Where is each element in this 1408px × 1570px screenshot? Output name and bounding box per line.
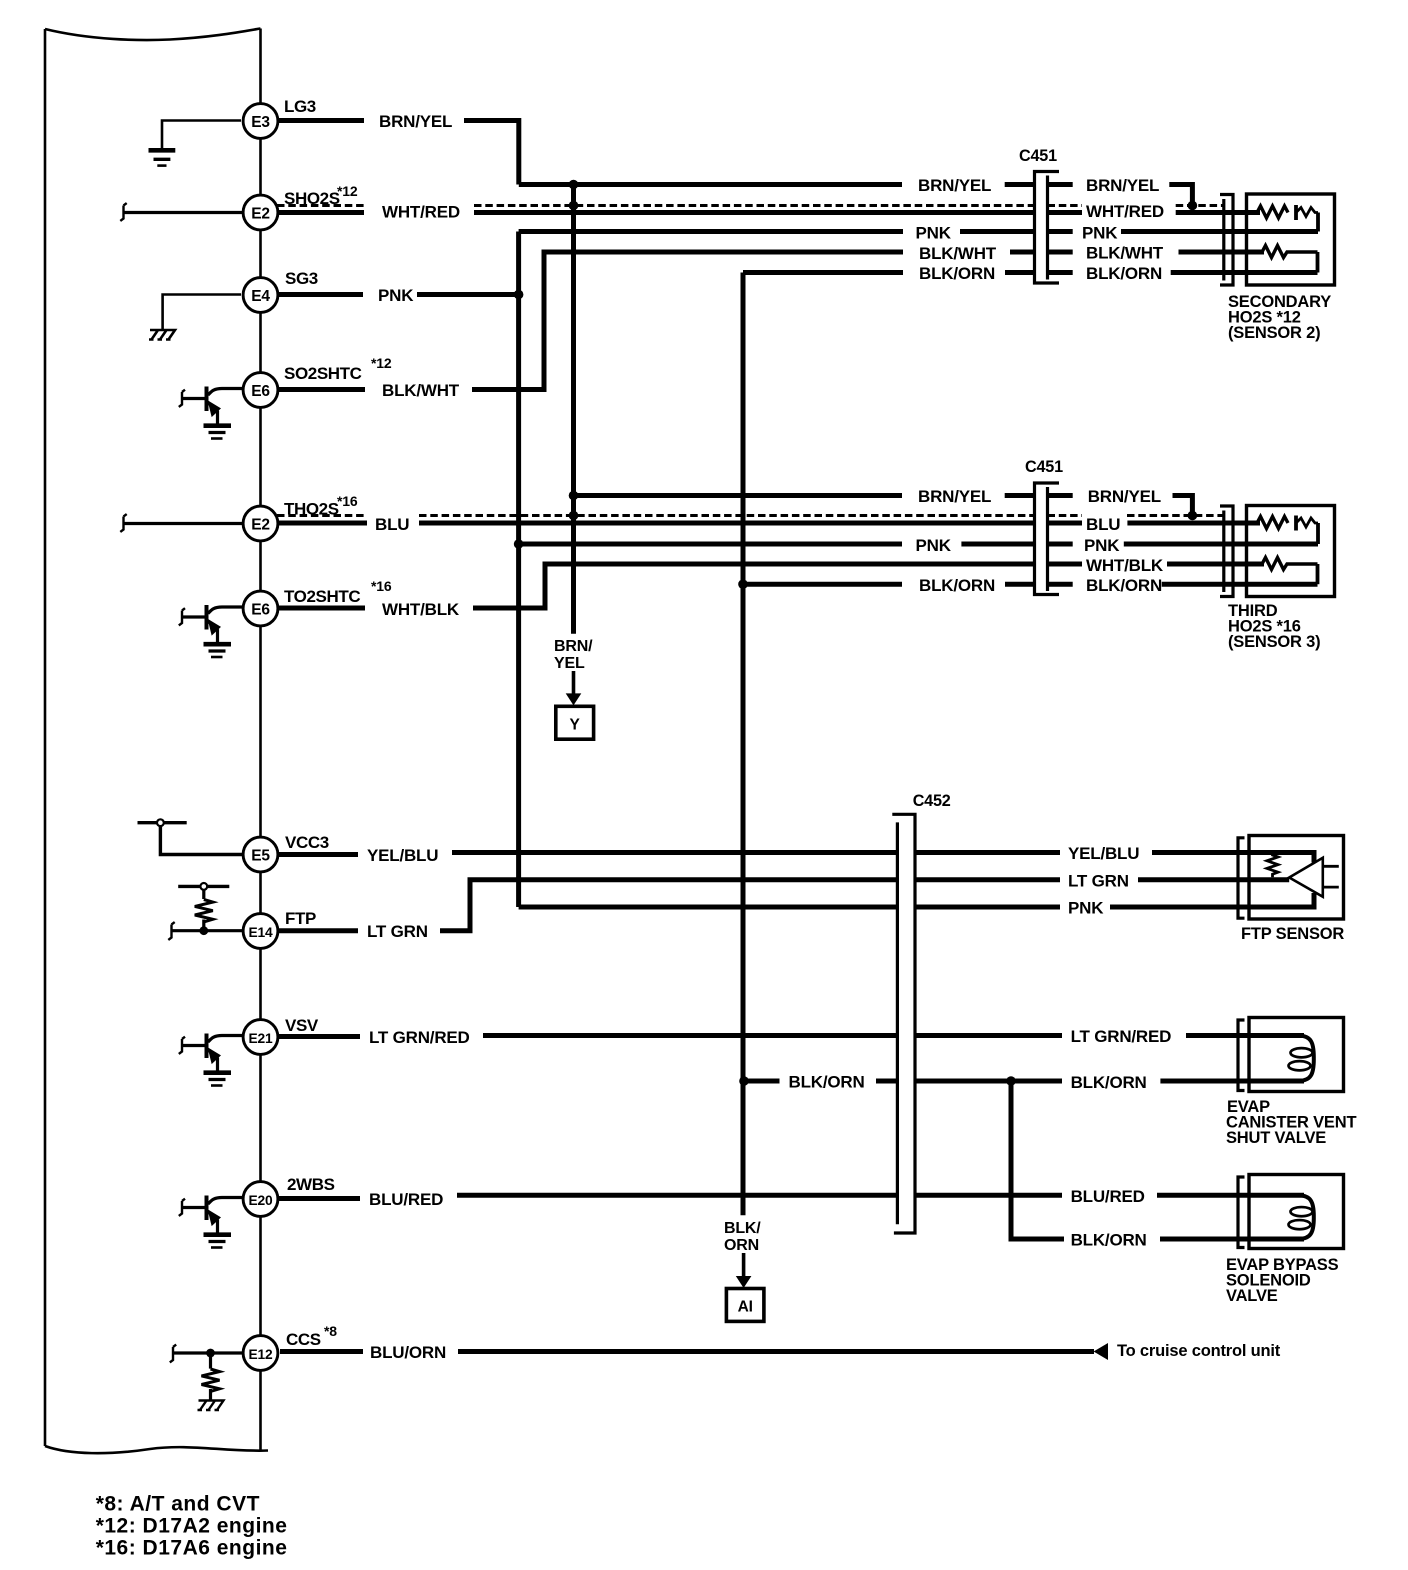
wire BRN/YEL2 into C451 <box>1005 493 1035 498</box>
wire BLU/RED from E20 <box>279 1196 360 1201</box>
pin E14 <box>243 914 278 949</box>
node AI (connector box) <box>726 1289 764 1322</box>
transistor at E21 with ground <box>208 1036 242 1043</box>
wire WHT/RED (label-C451) <box>474 210 1035 215</box>
svg-text:BLU: BLU <box>1086 515 1120 534</box>
svg-text:SO2SHTC: SO2SHTC <box>284 364 362 383</box>
wire WHT/RED stub (C451 right) <box>1048 210 1083 215</box>
svg-text:2WBS: 2WBS <box>287 1175 335 1194</box>
wire YEL/BLU to FTP <box>1152 850 1249 855</box>
svg-text:*16: *16 <box>337 493 358 509</box>
wire into E12 <box>173 1351 245 1354</box>
svg-text:LG3: LG3 <box>284 97 316 116</box>
svg-text:BLK/WHT: BLK/WHT <box>1086 244 1164 263</box>
wire BRN/YEL2 stub (right) <box>1048 493 1073 498</box>
sensor FTP potentiometer <box>1249 853 1314 863</box>
off-page hook (E2) <box>120 203 126 221</box>
pin E4 <box>243 278 278 313</box>
wire BRN/YEL row (to C451) <box>519 182 902 187</box>
wire YEL/BLU from E5 <box>278 852 358 857</box>
transistor at E20 with ground <box>208 1198 242 1205</box>
wire LT GRN to C452 <box>440 880 897 931</box>
wire PNK to bus <box>417 292 519 297</box>
ECM connector torn-page boundary <box>45 29 261 41</box>
wire PNK bus vertical <box>516 232 521 908</box>
wire BLU/ORN from E12 <box>280 1349 363 1354</box>
wire WHT/BLK to sensor 3 <box>1167 562 1264 567</box>
svg-text:*16: D17A6 engine: *16: D17A6 engine <box>96 1537 288 1560</box>
svg-text:*8: *8 <box>324 1323 337 1339</box>
svg-text:WHT/RED: WHT/RED <box>1086 202 1164 221</box>
svg-text:*16: *16 <box>371 578 392 594</box>
svg-text:BRN/YEL: BRN/YEL <box>1086 176 1159 195</box>
wire LT GRN/RED from E21 <box>279 1034 360 1039</box>
wire BLK/ORN into C451 <box>1005 270 1035 275</box>
svg-text:BLU: BLU <box>375 515 409 534</box>
wire PNK row1 <box>519 229 903 234</box>
wire shield2 dashed stub (right) <box>1048 514 1083 517</box>
svg-text:(SENSOR 3): (SENSOR 3) <box>1228 633 1320 651</box>
svg-text:BLK/ORN: BLK/ORN <box>919 264 995 283</box>
junction shield2 bus <box>569 511 579 521</box>
svg-text:*8: A/T and CVT: *8: A/T and CVT <box>96 1493 260 1516</box>
svg-text:BLK/WHT: BLK/WHT <box>919 244 997 263</box>
svg-text:E3: E3 <box>251 114 270 131</box>
svg-text:YEL/BLU: YEL/BLU <box>1068 844 1139 863</box>
svg-text:PNK: PNK <box>1082 224 1118 243</box>
wire BRN/YEL shield link (sensor 2) <box>1169 185 1192 206</box>
transistor at E6 lower with ground <box>208 607 242 614</box>
wire LT GRN from E14 <box>279 928 358 933</box>
wire LT GRN/RED to C452 <box>483 1033 897 1038</box>
wire PNK2 into C451 <box>961 542 1034 547</box>
wire WHT/RED (E2-label) <box>277 210 364 215</box>
wire PNK stub (C452 right) <box>915 905 1060 910</box>
svg-text:BLU/RED: BLU/RED <box>1071 1187 1145 1206</box>
svg-text:WHT/BLK: WHT/BLK <box>1086 556 1164 575</box>
wire BLU (E2-label) <box>277 521 367 526</box>
wire PNK to sensor 2 <box>1121 229 1318 234</box>
wire LT GRN to FTP <box>1138 877 1249 882</box>
svg-text:BLK/WHT: BLK/WHT <box>382 381 460 400</box>
wire BLU (label-C451) <box>419 521 1035 526</box>
pull-up resistor at E14 <box>178 885 229 888</box>
svg-text:E2: E2 <box>251 517 270 534</box>
svg-text:BRN/YEL: BRN/YEL <box>1088 487 1161 506</box>
svg-text:AI: AI <box>738 1299 753 1316</box>
wire BRN/YEL to bus <box>464 121 519 185</box>
wire WHT/BLK stub (right) <box>1048 562 1083 567</box>
wire BLK/ORN row2 <box>743 582 902 587</box>
svg-text:YEL: YEL <box>554 655 585 672</box>
svg-text:BRN/: BRN/ <box>554 638 593 655</box>
ground at E4 (chassis) <box>163 295 241 331</box>
wire PNK2 to sensor 3 <box>1124 542 1318 547</box>
wire BLK/WHT from E6 <box>277 387 365 392</box>
wire YEL/BLU to C452 <box>452 850 897 855</box>
junction BRN/YEL bus <box>569 180 579 190</box>
svg-text:C451: C451 <box>1019 147 1057 165</box>
wire BLK/WHT into C451 <box>1010 250 1035 255</box>
junction PNK row2 <box>514 539 524 549</box>
wire PNK row2 <box>519 542 902 547</box>
pin E5 <box>243 837 278 872</box>
junction shield at sensor 3 <box>1188 511 1198 521</box>
connector C452 <box>896 822 899 1224</box>
svg-text:BRN/YEL: BRN/YEL <box>918 176 991 195</box>
wire shield2 dashed (E2-label) <box>277 514 367 517</box>
junction PNK bus at E4 <box>514 290 524 300</box>
svg-text:WHT/BLK: WHT/BLK <box>382 600 460 619</box>
junction shield S2 <box>569 201 579 211</box>
svg-text:BLK/ORN: BLK/ORN <box>1086 264 1162 283</box>
wire BLK/ORN branch vertical <box>1011 1081 1064 1239</box>
junction BLK/ORN row2 <box>738 579 748 589</box>
wire BLU/ORN to cruise unit <box>458 1349 1094 1354</box>
svg-text:SHUT VALVE: SHUT VALVE <box>1226 1129 1326 1147</box>
svg-text:E4: E4 <box>251 288 270 305</box>
pin E2 (SHO2S) <box>243 195 278 230</box>
pin E6 (SO2SHTC) <box>243 373 278 408</box>
svg-text:BLK/ORN: BLK/ORN <box>919 576 995 595</box>
svg-text:PNK: PNK <box>916 536 952 555</box>
sensor FTP connector bracket <box>1238 838 1245 918</box>
junction shield at sensor 2 <box>1188 201 1198 211</box>
wire PNK row3 to C452 <box>519 905 898 910</box>
junction BLK/ORN valve branch <box>1006 1076 1016 1086</box>
wire BRN/YEL2 shield link <box>1173 496 1193 516</box>
svg-text:E6: E6 <box>251 602 270 619</box>
wire PNK into C451 <box>960 229 1035 234</box>
wire WHT/BLK to bus <box>473 564 1035 608</box>
svg-text:(SENSOR 2): (SENSOR 2) <box>1228 324 1320 342</box>
wire BRN/YEL bus vertical <box>571 185 576 634</box>
wire BLK/WHT to sensor 2 <box>1179 250 1265 255</box>
svg-text:C452: C452 <box>913 792 951 810</box>
wire BLK/ORN stub (C451 right) <box>1048 270 1073 275</box>
svg-text:LT GRN/RED: LT GRN/RED <box>1071 1027 1172 1046</box>
svg-text:FTP SENSOR: FTP SENSOR <box>1241 925 1344 943</box>
sensor FTP box <box>1249 836 1344 920</box>
svg-text:PNK: PNK <box>1084 536 1120 555</box>
off-page hook (E12) <box>170 1345 176 1363</box>
wire shield dashed to sensor 2 <box>1176 204 1224 207</box>
wire BLU/RED stub (C452 right) <box>915 1193 1062 1198</box>
wire BLU stub (right) <box>1048 521 1083 526</box>
svg-text:E21: E21 <box>249 1031 273 1046</box>
wire BLK/ORN to valve <box>1160 1079 1304 1084</box>
svg-text:BLU/RED: BLU/RED <box>369 1190 443 1209</box>
svg-text:PNK: PNK <box>916 224 952 243</box>
wire shield dashed (E2-label) <box>277 204 364 207</box>
ground at E3 <box>162 121 241 149</box>
wire shield2 dashed (label-C451) <box>419 514 1035 517</box>
svg-text:VCC3: VCC3 <box>285 833 329 852</box>
svg-text:CCS: CCS <box>286 1330 321 1349</box>
ECM connector line (ECM side) <box>259 29 262 1451</box>
wire BLK/ORN2 stub (right) <box>1048 582 1073 587</box>
arrow BLK/ORN into AI <box>742 1253 746 1276</box>
pin E20 <box>243 1182 278 1217</box>
svg-text:BRN/YEL: BRN/YEL <box>379 112 452 131</box>
node Y (connector box) <box>556 706 594 739</box>
svg-text:FTP: FTP <box>285 909 316 928</box>
svg-text:BLK/ORN: BLK/ORN <box>1071 1073 1147 1092</box>
wire BLK/ORN row1 <box>743 270 903 275</box>
svg-text:BLK/ORN: BLK/ORN <box>1071 1231 1147 1250</box>
wire PNK to FTP <box>1110 905 1249 910</box>
wire into E2 lower <box>124 522 243 525</box>
off-page hook (E14) <box>168 922 174 940</box>
wire shield dashed (label-C451) <box>474 204 1035 207</box>
svg-text:C451: C451 <box>1025 458 1063 476</box>
svg-text:E2: E2 <box>251 206 270 223</box>
wire WHT/BLK from E6 lower <box>277 606 365 611</box>
pin E6 (TO2SHTC) <box>243 591 278 626</box>
wire WHT/RED to sensor 2 <box>1176 210 1260 215</box>
connector C451 (sensor 2) <box>1035 172 1060 284</box>
wire shield dashed stub (C451 right) <box>1048 204 1083 207</box>
junction BLK/ORN at bus <box>739 1076 749 1086</box>
wire PNK2 stub (right) <box>1048 542 1073 547</box>
wire BLK/WHT stub (C451 right) <box>1048 250 1073 255</box>
wire into E14 <box>172 929 245 932</box>
solenoid EVAP canister vent shut valve <box>1238 1020 1245 1091</box>
resistor to ground at E12 <box>206 1349 215 1358</box>
svg-text:*12: D17A2 engine: *12: D17A2 engine <box>96 1515 288 1538</box>
wire PNK from E4 <box>277 292 363 297</box>
svg-text:LT GRN/RED: LT GRN/RED <box>369 1028 470 1047</box>
wire BRN/YEL stub (C451 right) <box>1048 182 1073 187</box>
wire BLK/ORN to sensor 2 <box>1171 270 1318 275</box>
svg-text:To cruise control unit: To cruise control unit <box>1117 1342 1281 1360</box>
svg-text:E20: E20 <box>249 1193 273 1208</box>
wire LT GRN stub (C452 right) <box>915 877 1060 882</box>
off-page hook (E2 lower) <box>120 514 126 532</box>
wire BLK/ORN2 to sensor 3 <box>1162 582 1318 587</box>
wire into E2 <box>124 211 243 214</box>
sensor THIRD HO2S connector <box>1220 506 1233 597</box>
svg-text:PNK: PNK <box>1068 899 1104 918</box>
wire BLK/ORN2 into C451 <box>1005 582 1035 587</box>
wire BLK/ORN stub (C452 right) <box>915 1079 1062 1084</box>
wire shield2 dashed to sensor 3 <box>1127 514 1224 517</box>
svg-text:YEL/BLU: YEL/BLU <box>367 846 438 865</box>
connector C451 (sensor 3) <box>1035 483 1060 595</box>
svg-text:Y: Y <box>570 717 581 734</box>
svg-text:BLU/ORN: BLU/ORN <box>370 1343 446 1362</box>
wire BLK/WHT to bus <box>472 252 903 390</box>
svg-text:*12: *12 <box>337 183 358 199</box>
pin E21 <box>243 1020 278 1055</box>
wire BLU/RED to valve <box>1157 1193 1304 1198</box>
wire LT GRN/RED to valve <box>1186 1033 1304 1038</box>
pin E2 (THO2S) <box>243 506 278 541</box>
wire BLK/ORN stub <box>744 1079 780 1084</box>
svg-text:LT GRN: LT GRN <box>1068 872 1129 891</box>
wire BLU/RED to C452 <box>457 1193 897 1198</box>
wire YEL/BLU stub (C452 right) <box>915 850 1060 855</box>
svg-text:ORN: ORN <box>724 1237 759 1254</box>
svg-text:*12: *12 <box>371 355 392 371</box>
wire BLK/ORN to C452 <box>876 1079 897 1084</box>
junction BRN/YEL row2 <box>569 491 579 501</box>
wire BRN/YEL into C451 <box>1005 182 1035 187</box>
svg-text:BRN/YEL: BRN/YEL <box>918 487 991 506</box>
solenoid EVAP bypass solenoid valve <box>1238 1177 1245 1248</box>
svg-text:LT GRN: LT GRN <box>367 922 428 941</box>
pin E3 <box>243 104 278 139</box>
svg-text:VSV: VSV <box>285 1016 319 1035</box>
svg-text:PNK: PNK <box>378 286 414 305</box>
wire BLK/ORN trunk <box>741 273 746 1216</box>
wire BRN/YEL from E3 <box>277 118 364 123</box>
wire PNK stub (C451 right) <box>1048 229 1073 234</box>
transistor at E6 with ground <box>208 389 242 396</box>
svg-text:BLK/ORN: BLK/ORN <box>1086 576 1162 595</box>
wire BRN/YEL row2 <box>574 493 903 498</box>
svg-text:E6: E6 <box>251 383 270 400</box>
svg-text:E14: E14 <box>249 925 273 940</box>
wire BLU to sensor 3 <box>1127 521 1260 526</box>
sensor SECONDARY HO2S connector <box>1220 195 1233 286</box>
wire BLK/ORN to bypass valve <box>1160 1237 1304 1242</box>
svg-text:E12: E12 <box>249 1347 273 1362</box>
pin E12 <box>243 1336 278 1371</box>
svg-text:VALVE: VALVE <box>1226 1287 1278 1305</box>
power terminal at E5 <box>138 821 187 824</box>
svg-text:BLK/: BLK/ <box>724 1220 761 1237</box>
svg-text:SG3: SG3 <box>285 269 318 288</box>
svg-text:WHT/RED: WHT/RED <box>382 203 460 222</box>
svg-text:E5: E5 <box>251 848 270 865</box>
svg-text:TO2SHTC: TO2SHTC <box>284 587 360 606</box>
svg-text:BLK/ORN: BLK/ORN <box>789 1073 865 1092</box>
arrow BRN/YEL into Y <box>572 671 576 694</box>
arrow to cruise control unit <box>1094 1343 1108 1360</box>
wire LT GRN/RED stub (C452 right) <box>915 1033 1062 1038</box>
